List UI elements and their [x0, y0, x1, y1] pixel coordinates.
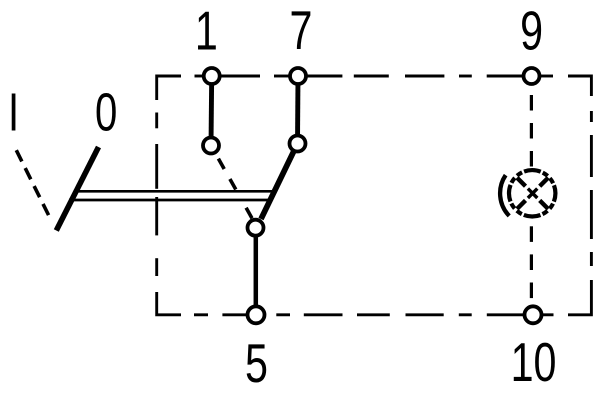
terminal 5 circle	[248, 306, 265, 323]
housing border bottom edge (chain line)	[157, 290, 592, 315]
contact circle below terminal 7	[290, 136, 306, 152]
dashed wire terminal 9 down to lamp	[530, 95, 533, 167]
label 0 (position 0)	[95, 83, 117, 143]
housing border top edge (chain line)	[157, 76, 592, 100]
svg-text:10: 10	[511, 332, 557, 393]
svg-text:9: 9	[520, 1, 543, 62]
lamp reflector arc	[500, 175, 509, 216]
lever position 0 (solid)	[56, 147, 98, 231]
dashed wire lamp down to terminal 10	[530, 226, 533, 298]
label 1	[195, 1, 218, 62]
terminal 10 circle	[525, 306, 542, 323]
lamp L1 (dashed circle with X, illumination)	[509, 170, 555, 216]
contact circle below terminal 1	[203, 138, 219, 154]
svg-text:0: 0	[95, 83, 117, 143]
terminal 1 circle	[204, 68, 220, 84]
lever position I (dashed)	[16, 150, 51, 220]
terminal 9 circle	[524, 68, 540, 84]
svg-text:7: 7	[290, 0, 313, 61]
housing border left edge (chain line)	[155, 113, 158, 277]
housing border right edge (chain line)	[590, 111, 593, 290]
common contact circle above terminal 5	[248, 220, 264, 236]
wire contact 7 to common contact (closed switch blade)	[261, 144, 298, 220]
label 7	[290, 0, 313, 61]
dashed switch blade position I (contact 1 to common)	[218, 159, 252, 219]
label I (position I)	[8, 83, 19, 143]
wire common contact to terminal 5	[254, 228, 259, 315]
wire terminal 7 to contact	[295, 76, 300, 144]
label 10	[511, 332, 557, 393]
svg-text:I: I	[8, 83, 19, 143]
label 9	[520, 1, 543, 62]
label 5	[245, 333, 268, 394]
actuator push rod (double line)	[74, 190, 277, 193]
terminal 7 circle	[290, 68, 306, 84]
wire terminal 1 to contact	[209, 76, 215, 146]
svg-text:1: 1	[195, 1, 218, 62]
svg-text:5: 5	[245, 333, 268, 394]
